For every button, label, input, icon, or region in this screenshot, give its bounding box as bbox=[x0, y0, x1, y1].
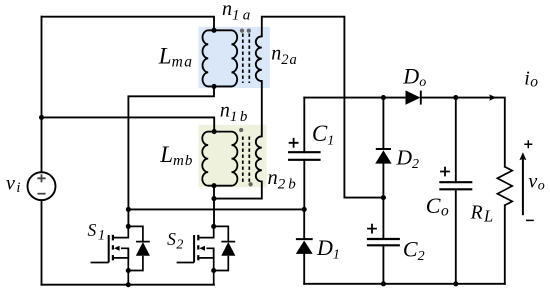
node S1 ground bbox=[126, 282, 131, 287]
wire Co branch bbox=[455, 98, 457, 284]
wire left rail upper bbox=[41, 17, 43, 173]
arrow io bbox=[489, 94, 496, 100]
wire n2b bottom to S2 drain node bbox=[214, 182, 262, 199]
wire n2a top to D2 anode bbox=[262, 17, 384, 198]
inductor Lma bbox=[203, 30, 214, 86]
wire C1 branch bbox=[303, 98, 305, 210]
wire C2 branch bbox=[382, 198, 384, 284]
resistor RL bbox=[497, 167, 512, 206]
arrow vo bbox=[522, 157, 524, 216]
capacitor C1 bbox=[288, 151, 321, 153]
node S1 drain wire bbox=[126, 207, 131, 212]
mosfet S1 bbox=[91, 226, 129, 270]
node vi top tap bbox=[39, 115, 44, 120]
mosfet S2 bbox=[177, 226, 214, 270]
polarity dot a secondary bbox=[247, 28, 251, 32]
winding n2b bbox=[256, 136, 262, 181]
node a primary bottom bbox=[211, 84, 216, 89]
wire n2a bottom to n2b top bbox=[261, 81, 263, 136]
wire bottom right rail bbox=[304, 283, 505, 285]
wire b primary bottom to S2 drain bbox=[213, 186, 215, 227]
wire S1 drain to C1/D1 node bbox=[128, 208, 304, 210]
polarity dot a primary bbox=[240, 28, 244, 32]
inductor Lmb bbox=[202, 132, 214, 186]
capacitor C2 bbox=[367, 238, 400, 240]
node a primary top bbox=[211, 28, 216, 33]
body diode S2 bbox=[214, 226, 236, 284]
node Co bottom bbox=[453, 281, 458, 286]
wire output top bbox=[304, 98, 505, 167]
node b primary bottom bbox=[211, 183, 216, 188]
node D2 top bbox=[381, 95, 386, 100]
transformer Ta background bbox=[199, 27, 270, 88]
node C1 D1 bbox=[302, 207, 307, 212]
polarity dot b primary bbox=[239, 128, 243, 132]
polarity dot b secondary bbox=[248, 182, 252, 186]
body diode S1 bbox=[128, 226, 150, 284]
diode Do bbox=[420, 91, 422, 105]
wire bottom left rail bbox=[42, 284, 215, 286]
node n2b return bbox=[211, 196, 216, 201]
wire vi+ to b primary top bbox=[42, 117, 215, 131]
node D2 anode bbox=[381, 195, 386, 200]
wire left rail lower bbox=[41, 200, 43, 285]
winding n1a bbox=[214, 30, 237, 86]
node S1 source bbox=[126, 268, 131, 273]
core b bbox=[243, 137, 250, 183]
node b primary top bbox=[212, 129, 217, 134]
diode D1 bbox=[296, 238, 313, 240]
capacitor Co bbox=[439, 181, 472, 183]
core a bbox=[243, 34, 250, 84]
transformer Tb background bbox=[199, 125, 267, 187]
wire top left rail bbox=[42, 17, 215, 31]
node C2 bottom bbox=[381, 281, 386, 286]
node S2 drain bbox=[211, 224, 216, 229]
wire D1 branch bbox=[303, 209, 305, 283]
node S1 drain bbox=[126, 224, 131, 229]
diode D2 bbox=[376, 148, 391, 150]
node Co top bbox=[453, 95, 458, 100]
voltage source vi bbox=[28, 172, 56, 200]
wire D2 branch bbox=[382, 98, 384, 198]
wire RL bottom bbox=[504, 205, 506, 283]
wire a primary bottom to S1 drain bbox=[128, 86, 214, 226]
winding n1b bbox=[214, 132, 237, 186]
node S2 source bbox=[211, 268, 216, 273]
svg-text:RL: RL bbox=[470, 202, 494, 225]
winding n2a bbox=[256, 36, 262, 81]
